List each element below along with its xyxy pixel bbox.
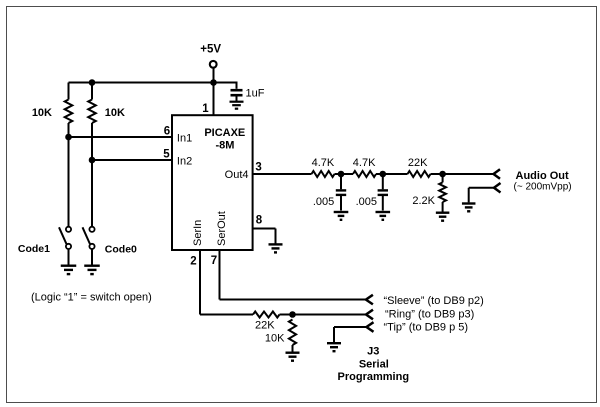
svg-text:6: 6 [164,126,170,138]
svg-text:+5V: +5V [200,44,221,56]
svg-text:(Logic “1” = switch open): (Logic “1” = switch open) [31,292,152,304]
svg-text:Code1: Code1 [18,243,50,255]
svg-text:.005: .005 [313,196,334,208]
svg-text:.005: .005 [356,196,377,208]
svg-text:Serial: Serial [359,358,389,370]
svg-text:PICAXE: PICAXE [204,127,245,139]
svg-text:Out4: Out4 [225,169,249,181]
svg-text:10K: 10K [32,107,52,119]
svg-text:8: 8 [256,215,263,227]
svg-text:2: 2 [190,255,196,267]
svg-text:J3: J3 [367,346,379,358]
svg-text:Code0: Code0 [105,243,137,255]
svg-text:“Tip” (to DB9 p 5): “Tip” (to DB9 p 5) [384,322,469,334]
svg-text:10K: 10K [105,107,125,119]
svg-text:In2: In2 [177,156,192,168]
svg-text:1uF: 1uF [246,88,265,100]
svg-text:4.7K: 4.7K [312,157,335,169]
svg-text:1: 1 [202,103,209,115]
svg-text:SerIn: SerIn [192,220,204,246]
svg-text:22K: 22K [408,157,428,169]
svg-text:7: 7 [211,255,217,267]
svg-text:SerOut: SerOut [216,211,228,246]
svg-text:4.7K: 4.7K [353,157,376,169]
svg-text:“Sleeve” (to DB9 p2): “Sleeve” (to DB9 p2) [384,295,484,307]
svg-text:“Ring” (to DB9 p3): “Ring” (to DB9 p3) [385,309,474,321]
svg-text:Programming: Programming [338,371,410,383]
svg-text:22K: 22K [255,320,275,332]
svg-text:2.2K: 2.2K [412,195,435,207]
svg-text:In1: In1 [177,133,192,145]
svg-text:10K: 10K [265,332,285,344]
svg-text:Audio Out: Audio Out [516,170,569,182]
svg-text:(~ 200mVpp): (~ 200mVpp) [514,181,572,192]
svg-text:-8M: -8M [216,139,235,151]
svg-text:5: 5 [163,149,170,161]
svg-text:3: 3 [255,161,261,173]
